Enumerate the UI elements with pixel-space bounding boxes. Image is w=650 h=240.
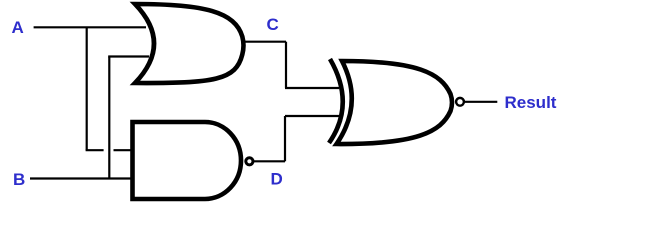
svg-text:D: D [271, 170, 283, 189]
svg-text:Result: Result [505, 93, 557, 112]
svg-text:B: B [13, 170, 25, 189]
svg-text:C: C [267, 15, 279, 34]
svg-text:A: A [12, 18, 24, 37]
